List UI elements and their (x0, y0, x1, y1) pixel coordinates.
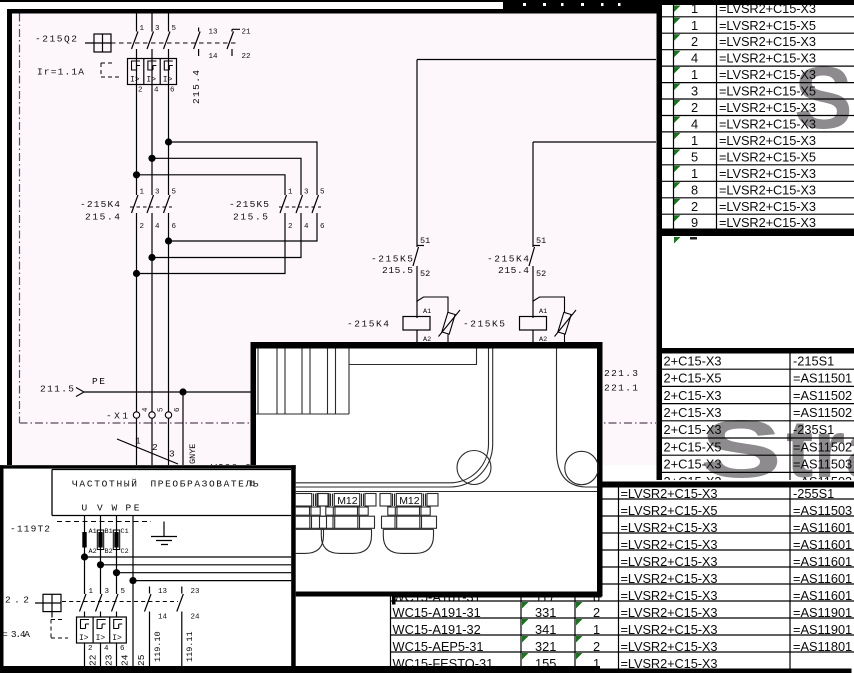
junction dots lower (165, 237, 172, 244)
W2 row 4 (674, 51, 681, 58)
svg-text:2+C15-X3: 2+C15-X3 (664, 405, 722, 420)
right panel left thick border (657, 0, 663, 482)
svg-text:331: 331 (535, 605, 556, 620)
svg-text:1: 1 (140, 189, 145, 197)
svg-text:1: 1 (89, 588, 94, 596)
varistor for K4 coil (417, 297, 461, 342)
svg-text:341: 341 (535, 622, 556, 637)
svg-text:=AS11601: =AS11601 (793, 520, 852, 535)
svg-text:1: 1 (593, 622, 600, 637)
svg-text:-235S1: -235S1 (793, 422, 834, 437)
svg-text:5: 5 (320, 189, 325, 197)
svg-text:B1: B1 (105, 528, 113, 536)
clipped row below W2 border (674, 237, 681, 244)
wire L3 (168, 14, 170, 466)
terminal circles (133, 412, 171, 418)
svg-text:=AS11502: =AS11502 (793, 388, 852, 403)
svg-text:-215Q2: -215Q2 (35, 34, 77, 45)
svg-text:=LVSR2+C15-X3: =LVSR2+C15-X3 (621, 571, 718, 586)
svg-text:3: 3 (155, 189, 160, 197)
PE wire down (132, 516, 134, 669)
svg-text:-215K5: -215K5 (371, 254, 413, 265)
W2 row 3 (674, 34, 681, 41)
svg-text:=AS11502: =AS11502 (793, 439, 852, 454)
mounting hole circle right (565, 451, 598, 484)
svg-text:A2: A2 (89, 548, 97, 556)
svg-text:=LVSR2+C15-X3: =LVSR2+C15-X3 (621, 588, 718, 603)
W6 device drawing window with thick border (251, 342, 603, 597)
svg-text:C2: C2 (121, 548, 129, 556)
svg-text:1: 1 (691, 18, 698, 33)
W7 left border (0, 465, 4, 673)
svg-text:=LVSR2+C15-X3: =LVSR2+C15-X3 (719, 182, 816, 197)
svg-text:I>: I> (96, 634, 106, 643)
W2 row 5 (674, 67, 681, 74)
svg-text:=AS11801: =AS11801 (793, 639, 852, 654)
svg-text:=LVSR2+C15-X3: =LVSR2+C15-X3 (719, 215, 816, 230)
svg-text:3: 3 (105, 588, 110, 596)
W4 row lines (391, 499, 854, 652)
bottom thick bar left (0, 666, 600, 673)
aux contact 21/22 (227, 29, 240, 56)
svg-text:=AS11901: =AS11901 (793, 622, 852, 637)
cable gland at 347 (318, 494, 376, 554)
svg-text:W: W (112, 503, 118, 514)
svg-text:=AS11503: =AS11503 (793, 457, 852, 472)
W7 top border (0, 465, 296, 468)
svg-text:4: 4 (691, 51, 698, 66)
svg-text:=LVSR2+C15-X3: =LVSR2+C15-X3 (719, 117, 816, 132)
contactor -215K5 contacts (280, 195, 319, 219)
top center sliver window bar (503, 2, 660, 10)
W2 row 6 (674, 84, 681, 91)
svg-text:3: 3 (169, 449, 175, 460)
svg-text:=AS11501: =AS11501 (793, 371, 852, 386)
dashed trip linkage (62, 601, 178, 603)
svg-text:3: 3 (155, 25, 160, 33)
svg-text:-215K5: -215K5 (229, 199, 269, 210)
phase wires U V W (85, 516, 134, 669)
svg-text:=AS11601: =AS11601 (793, 571, 852, 586)
svg-text:=LVSR2+C15-X5: =LVSR2+C15-X5 (621, 503, 718, 518)
svg-text:6: 6 (172, 223, 177, 231)
wires below overload to bottom (85, 643, 117, 668)
svg-text:B2: B2 (105, 548, 113, 556)
svg-text:=LVSR2+C15-X3: =LVSR2+C15-X3 (719, 34, 816, 49)
svg-text:9: 9 (691, 215, 698, 230)
PE wire (84, 391, 253, 393)
svg-text:=LVSR2+C15-X5: =LVSR2+C15-X5 (719, 18, 816, 33)
svg-text:2: 2 (138, 87, 143, 95)
overload hook symbols (132, 61, 173, 70)
lower table window top border remnant (392, 594, 602, 598)
screenshot top thin line (0, 0, 854, 2)
svg-text:13: 13 (209, 29, 219, 37)
svg-text:=AS11601: =AS11601 (793, 537, 852, 552)
W1 top border (7, 9, 662, 14)
svg-text:PE: PE (92, 376, 105, 387)
svg-text:I>: I> (130, 76, 140, 85)
aux contact 23/24 (177, 587, 184, 669)
window W1 schematic background (0, 2, 662, 465)
svg-text:= 3.4A: = 3.4A (2, 629, 30, 640)
svg-text:21: 21 (242, 29, 252, 37)
svg-text:2: 2 (88, 645, 93, 653)
svg-text:2: 2 (691, 34, 698, 49)
PE junction dot (179, 388, 186, 395)
svg-text:2+C15-X5: 2+C15-X5 (664, 371, 722, 386)
svg-text:-X1: -X1 (106, 411, 128, 422)
NC contact -215K5 51/52 (413, 246, 424, 319)
W4 window background (bottom-right table) (293, 480, 854, 673)
fuse A (82, 532, 86, 548)
aux contact 13/14 (145, 587, 152, 669)
svg-text:2: 2 (140, 223, 145, 231)
right inner wall (557, 349, 598, 488)
frame dash-dot vertical (19, 14, 21, 424)
W3 column line (789, 353, 791, 481)
svg-text:=LVSR2+C15-X3: =LVSR2+C15-X3 (719, 51, 816, 66)
svg-text:14: 14 (209, 53, 219, 61)
fuse B (97, 530, 103, 550)
W1 left border (7, 9, 12, 465)
K5 return wires to K4 (137, 219, 318, 274)
svg-text:215.4: 215.4 (85, 212, 120, 223)
svg-text:2+C15-X3: 2+C15-X3 (664, 457, 722, 472)
svg-text:ПРЕОБРАЗОВАТЕЛЬ: ПРЕОБРАЗОВАТЕЛЬ (151, 479, 259, 490)
svg-text:4: 4 (304, 223, 309, 231)
svg-text:-215K4: -215K4 (347, 319, 389, 330)
right panel window background (W2/W3) (657, 0, 854, 488)
svg-text:=LVSR2+C15-X3: =LVSR2+C15-X3 (719, 133, 816, 148)
svg-text:215.4: 215.4 (498, 265, 529, 276)
wire L2 (151, 14, 153, 466)
svg-text:52: 52 (536, 269, 546, 279)
svg-text:=LVSR2+C15-X3: =LVSR2+C15-X3 (719, 166, 816, 181)
svg-text:6: 6 (120, 645, 125, 653)
junction node dots on L1..L3 (165, 138, 172, 145)
svg-text:14: 14 (158, 614, 168, 622)
svg-text:=AS11503: =AS11503 (793, 503, 852, 518)
base plate line (258, 491, 597, 493)
W4 column lines (391, 482, 791, 669)
W3 window top thick border (657, 348, 854, 354)
frame dash-dot horizontal (20, 422, 657, 424)
cable slash (117, 439, 178, 464)
svg-text:5: 5 (172, 189, 177, 197)
W2 bottom thick border (657, 229, 854, 237)
svg-text:52: 52 (420, 269, 430, 279)
contactor -215K4 contacts (132, 195, 171, 213)
W2 row 8 (674, 117, 681, 124)
svg-text:2+C15-X3: 2+C15-X3 (664, 353, 722, 368)
svg-text:4: 4 (154, 87, 159, 95)
svg-text:=AS11601: =AS11601 (793, 588, 852, 603)
svg-text:-215K5: -215K5 (463, 319, 505, 330)
svg-text:=LVSR2+C15-X3: =LVSR2+C15-X3 (719, 67, 816, 82)
svg-text:-215K4: -215K4 (487, 254, 529, 265)
svg-text:5: 5 (158, 407, 166, 412)
overload relay box (77, 617, 127, 643)
W2 window top bar (662, 1, 854, 5)
Q2 pole contacts (slashes) (132, 32, 171, 50)
mounting hole circle left (457, 451, 491, 485)
svg-text:119.10: 119.10 (153, 631, 163, 662)
svg-text:2: 2 (593, 605, 600, 620)
svg-text:=LVSR2+C15-X3: =LVSR2+C15-X3 (719, 199, 816, 214)
svg-text:WC15-A191-32: WC15-A191-32 (393, 622, 481, 637)
svg-text:2.2: 2.2 (5, 595, 29, 606)
PE interrupt arrow (76, 388, 84, 397)
W2 table row lines (662, 17, 854, 231)
terminal block grid (258, 349, 349, 415)
svg-text:WC15-A191-31: WC15-A191-31 (393, 605, 481, 620)
aux contact 13/14 (194, 28, 201, 57)
svg-text:=LVSR2+C15-X3: =LVSR2+C15-X3 (719, 100, 816, 115)
svg-text:4: 4 (155, 223, 160, 231)
svg-text:211.5: 211.5 (40, 384, 74, 395)
svg-text:A1: A1 (423, 308, 431, 316)
svg-text:=AS11901: =AS11901 (793, 605, 852, 620)
breaker square symbol (35, 594, 61, 617)
svg-text:M12: M12 (337, 495, 358, 507)
svg-text:2: 2 (152, 442, 158, 453)
svg-text:221.1: 221.1 (604, 383, 638, 394)
feed wires to K5 (137, 142, 318, 195)
wire L1 (136, 14, 138, 466)
svg-text:1: 1 (135, 436, 141, 447)
overload trip dashed linkage (101, 63, 119, 77)
svg-text:221.3: 221.3 (604, 368, 638, 379)
svg-text:2: 2 (288, 223, 293, 231)
W4 top thick border (602, 482, 854, 488)
PE drop wire (182, 392, 184, 465)
bottom thick bar right (600, 669, 852, 673)
svg-text:-215S1: -215S1 (793, 353, 834, 368)
W2 row 11 (674, 166, 681, 173)
svg-text:A1: A1 (89, 528, 97, 536)
svg-text:A1: A1 (539, 308, 547, 316)
junction dots (81, 553, 88, 560)
svg-text:4: 4 (104, 645, 109, 653)
svg-text:3: 3 (304, 189, 309, 197)
svg-text:=LVSR2+C15-X3: =LVSR2+C15-X3 (621, 520, 718, 535)
svg-text:-215K4: -215K4 (80, 199, 120, 210)
svg-text:-119T2: -119T2 (10, 524, 50, 535)
svg-text:=LVSR2+C15-X3: =LVSR2+C15-X3 (621, 639, 718, 654)
NC contact -215K4 51/52 (529, 246, 540, 319)
inverter box outline (52, 470, 291, 516)
svg-text:=LVSR2+C15-X3: =LVSR2+C15-X3 (621, 622, 718, 637)
W2 row 13 (674, 199, 681, 206)
trip dashed hook (51, 620, 68, 639)
svg-text:215.4: 215.4 (191, 70, 202, 104)
W7 right border (291, 465, 296, 673)
svg-text:24: 24 (120, 654, 131, 666)
svg-text:WC15-AEP5-31: WC15-AEP5-31 (393, 639, 484, 654)
svg-text:2: 2 (691, 100, 698, 115)
svg-text:5: 5 (172, 25, 177, 33)
svg-text:215.5: 215.5 (233, 212, 268, 223)
W2 row 12 (674, 182, 681, 189)
W2 row 9 (674, 133, 681, 140)
cable gland at 409 (380, 494, 438, 554)
svg-text:2: 2 (691, 199, 698, 214)
W2 row 2 (674, 18, 681, 25)
svg-text:I>: I> (112, 634, 122, 643)
svg-text:=LVSR2+C15-X5: =LVSR2+C15-X5 (719, 149, 816, 164)
svg-text:=AS11601: =AS11601 (793, 554, 852, 569)
svg-text:6: 6 (174, 407, 182, 412)
W2 row 10 (674, 149, 681, 156)
svg-text:b: b (250, 479, 255, 489)
svg-text:23: 23 (191, 588, 201, 596)
aux chain 1 riser and top feed (417, 60, 656, 248)
svg-text:M12: M12 (399, 495, 420, 507)
Q2 mechanical dashed link (111, 42, 236, 44)
svg-text:1: 1 (288, 189, 293, 197)
svg-text:I>: I> (163, 76, 173, 85)
svg-text:=LVSR2+C15-X3: =LVSR2+C15-X3 (621, 537, 718, 552)
svg-text:-255S1: -255S1 (793, 486, 834, 501)
svg-text:GNYE: GNYE (188, 444, 198, 464)
svg-text:13: 13 (158, 588, 168, 596)
svg-text:25: 25 (136, 654, 147, 666)
svg-text:22: 22 (242, 53, 251, 61)
svg-text:I>: I> (146, 76, 156, 85)
W7 frequency converter window (0, 465, 296, 673)
horizontal wires to window edge (85, 557, 292, 581)
ground symbol (151, 522, 177, 545)
svg-text:=LVSR2+C15-X3: =LVSR2+C15-X3 (621, 605, 718, 620)
cable gland at 299 (270, 494, 328, 554)
svg-text:6: 6 (320, 223, 325, 231)
svg-text:215.5: 215.5 (382, 265, 413, 276)
inner box wall (double line) (293, 349, 489, 483)
svg-text:119.11: 119.11 (185, 631, 195, 662)
top long rectangle (349, 349, 477, 365)
svg-text:4: 4 (691, 117, 698, 132)
svg-text:1: 1 (140, 25, 145, 33)
svg-text:1: 1 (691, 166, 698, 181)
svg-text:22: 22 (88, 654, 99, 666)
svg-text:=AS11502: =AS11502 (793, 405, 852, 420)
svg-text:6: 6 (170, 87, 175, 95)
svg-text:24: 24 (191, 614, 201, 622)
W2 column lines (674, 1, 717, 230)
varistor for K5 coil (533, 297, 577, 342)
svg-text:51: 51 (536, 236, 546, 246)
svg-text:=LVSR2+C15-X5: =LVSR2+C15-X5 (719, 84, 816, 99)
svg-text:2+C15-X3: 2+C15-X3 (664, 388, 722, 403)
svg-text:1: 1 (691, 133, 698, 148)
dashed filter boundary (57, 521, 151, 523)
W3 row lines (662, 369, 854, 472)
svg-text:3: 3 (691, 84, 698, 99)
svg-text:51: 51 (420, 236, 430, 246)
svg-text:1: 1 (691, 67, 698, 82)
W2 row 7 (674, 100, 681, 107)
svg-text:2+C15-X3: 2+C15-X3 (664, 422, 722, 437)
svg-text:=LVSR2+C15-X3: =LVSR2+C15-X3 (621, 486, 718, 501)
svg-text:8: 8 (691, 182, 698, 197)
svg-text:321: 321 (535, 639, 556, 654)
breaker -215Q2 symbol (85, 34, 111, 52)
svg-text:23: 23 (104, 654, 115, 666)
svg-text:C1: C1 (121, 528, 129, 536)
svg-text:V: V (97, 503, 103, 514)
svg-text:ЧАСТОТНЫЙ: ЧАСТОТНЫЙ (72, 479, 137, 490)
fuse C (113, 530, 119, 550)
svg-text:4: 4 (142, 407, 150, 412)
svg-text:2+C15-X5: 2+C15-X5 (664, 439, 722, 454)
svg-text:U: U (82, 503, 88, 514)
overload relay box (128, 59, 177, 85)
svg-text:2: 2 (593, 639, 600, 654)
svg-text:5: 5 (121, 588, 126, 596)
aux chain 2 riser and top feed (533, 142, 656, 247)
svg-text:I>: I> (79, 634, 89, 643)
main contacts 1/3/5 (80, 594, 119, 617)
svg-text:=LVSR2+C15-X3: =LVSR2+C15-X3 (621, 554, 718, 569)
W2 row 14 (674, 215, 681, 222)
svg-text:5: 5 (691, 149, 698, 164)
